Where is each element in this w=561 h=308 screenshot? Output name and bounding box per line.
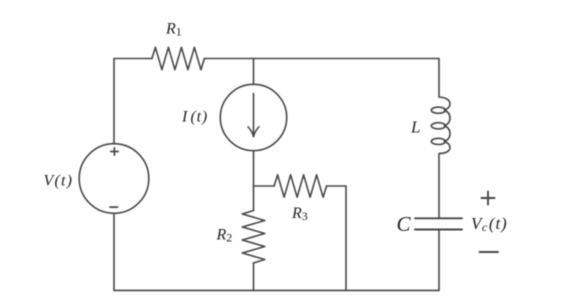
resistor R3 [274,175,327,197]
svg-text:V(t): V(t) [44,173,74,190]
capacitor polarity minus [480,251,499,253]
svg-text:Vc(t): Vc(t) [471,214,507,234]
V source plus sign [111,148,119,155]
wire top-left from V(t) up and across to R1 [114,59,152,144]
capacitor polarity plus [482,192,495,205]
capacitor C bottom plate [415,229,462,231]
wire node to R3 [254,185,275,187]
wire V source to bottom-left corner [113,213,115,290]
wire coil to capacitor [438,154,440,219]
current source I1 circle [220,84,286,150]
voltage source V1 circle [79,144,149,214]
resistor R1 [152,47,205,69]
bottom wire [114,289,439,291]
svg-text:I(t): I(t) [181,108,207,125]
wire from R2 to bottom [253,263,255,290]
resistor R2 [242,211,264,264]
svg-text:R1: R1 [165,21,182,39]
wire from I(t) to node [253,151,255,211]
wire from R3 down to bottom [327,186,346,290]
svg-text:R2: R2 [216,227,233,245]
wire capacitor to bottom-right corner [438,230,440,291]
wire middle stub from top wire to I(t) [253,59,255,85]
svg-text:R3: R3 [291,205,308,223]
inductor L coil [439,97,450,154]
current source arrow [253,94,255,136]
V source minus sign [110,206,118,208]
wire top from R1 to top-right corner [204,59,439,98]
svg-text:C: C [397,212,412,236]
capacitor C top plate [415,217,462,219]
svg-text:L: L [410,117,420,136]
